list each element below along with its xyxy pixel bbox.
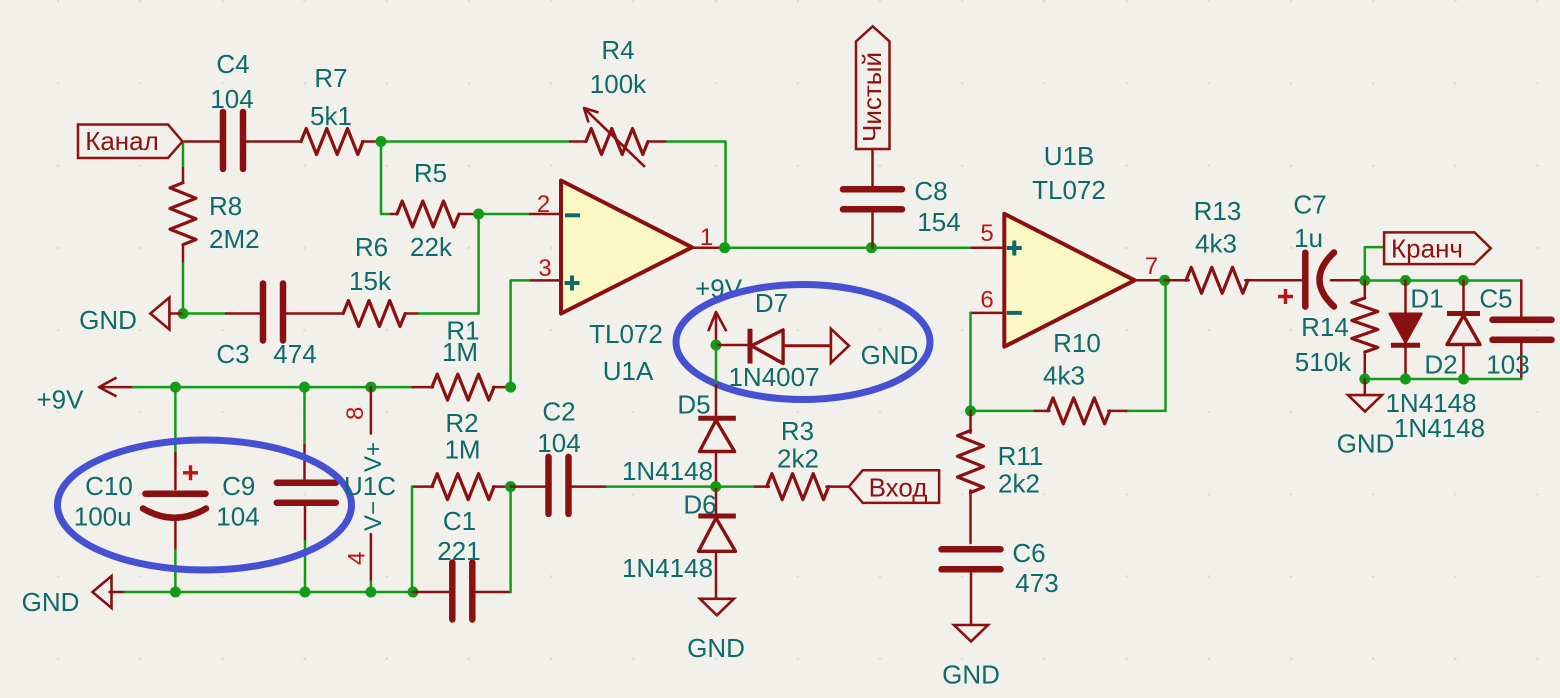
svg-text:V+: V+ (360, 442, 387, 472)
svg-text:R5: R5 (414, 158, 447, 188)
ground GND below R14 (1337, 379, 1395, 459)
svg-text:C2: C2 (542, 397, 575, 427)
svg-text:R2: R2 (445, 408, 478, 438)
svg-text:15k: 15k (349, 266, 392, 296)
resistor R1 1M (413, 316, 511, 401)
resistor R14 510k (1295, 281, 1378, 380)
svg-text:C4: C4 (216, 49, 249, 79)
capacitor C3 474 (216, 284, 316, 370)
svg-text:GND: GND (942, 660, 1000, 690)
svg-text:104: 104 (537, 428, 580, 458)
svg-text:Вход: Вход (869, 473, 928, 503)
svg-text:1N4148: 1N4148 (1394, 413, 1485, 443)
junction at C8 (866, 242, 877, 253)
ground GND (right of D7, rotated) (831, 329, 918, 370)
svg-text:103: 103 (1486, 350, 1529, 380)
wire node A down to R5 (381, 142, 391, 215)
U1A output pin wire (692, 246, 725, 249)
capacitor C6 473 (942, 538, 1059, 624)
svg-text:R14: R14 (1301, 312, 1349, 342)
svg-text:2M2: 2M2 (209, 224, 260, 254)
resistor R8 2M2 (170, 168, 260, 263)
svg-text:474: 474 (273, 339, 316, 369)
hierarchical label Канал (78, 125, 183, 159)
junction C10 top (170, 382, 181, 393)
wire R6→R5 output node (419, 214, 479, 314)
svg-text:154: 154 (917, 207, 960, 237)
power flag +9V left rail (37, 378, 133, 415)
capacitor C5 103 (1479, 281, 1551, 380)
junction D2 bottom (1458, 374, 1469, 385)
svg-text:4k3: 4k3 (1043, 361, 1085, 391)
wire node→U1A pin 2 (479, 213, 561, 216)
junction D2 top (1458, 275, 1469, 286)
svg-text:R13: R13 (1194, 196, 1242, 226)
junction R14 bottom (1359, 374, 1370, 385)
wire crunch bottom rail (1365, 378, 1522, 381)
svg-text:Чистый: Чистый (857, 52, 887, 142)
svg-text:Канал: Канал (85, 126, 159, 156)
svg-text:221: 221 (437, 536, 480, 566)
resistor R11 2k2 (958, 411, 1044, 543)
wire GND rail (125, 591, 413, 594)
capacitor C4 (210, 49, 253, 169)
svg-text:1N4007: 1N4007 (728, 362, 819, 392)
svg-text:R11: R11 (998, 441, 1044, 471)
resistor R6 15k (283, 232, 419, 327)
junction bias node (R1/R2/pin3) (505, 382, 516, 393)
svg-text:6: 6 (980, 287, 993, 314)
diode D5 1N4148 (622, 385, 736, 487)
svg-text:2: 2 (537, 191, 550, 218)
svg-text:1N4148: 1N4148 (622, 553, 713, 583)
resistor R3 2k2 (716, 416, 849, 500)
svg-text:C3: C3 (216, 339, 249, 369)
capacitor C9 104 (216, 387, 335, 592)
svg-text:104: 104 (210, 84, 253, 114)
wire node A→R4 (381, 140, 570, 143)
svg-text:8: 8 (342, 407, 369, 420)
U1A pin 3 wire (511, 280, 561, 387)
junction at GND node (178, 308, 189, 319)
power flag +9V at D7 (695, 274, 743, 346)
svg-text:473: 473 (1015, 568, 1058, 598)
svg-text:1u: 1u (1294, 223, 1323, 253)
junction crunch node (1359, 275, 1370, 286)
svg-text:TL072: TL072 (1032, 175, 1106, 205)
svg-text:100k: 100k (590, 69, 647, 99)
wire net КАНАЛ→C4 (top input run) (183, 142, 224, 169)
U1B pin 6 wire (971, 313, 1005, 411)
resistor R5 22k (391, 158, 479, 262)
svg-text:D2: D2 (1424, 350, 1457, 380)
svg-text:U1A: U1A (603, 356, 654, 386)
svg-text:R7: R7 (314, 63, 347, 93)
svg-text:100u: 100u (74, 502, 132, 532)
capacitor C2 104 (511, 397, 716, 514)
svg-text:2k2: 2k2 (998, 469, 1040, 499)
capacitor C7 1u (polarized) (1278, 190, 1365, 307)
capacitor C1 221 (413, 487, 511, 620)
svg-text:+9V: +9V (37, 385, 85, 415)
highlight ellipse around D7 (676, 285, 930, 400)
svg-text:5k1: 5k1 (310, 101, 352, 131)
capacitor C10 100u (polarized) (74, 387, 206, 592)
resistor R2 1M (412, 408, 511, 592)
junction at D7/D5 node (711, 340, 722, 351)
diode D6 1N4148 (622, 487, 736, 599)
node A junction (376, 136, 387, 147)
diode D7 1N4007 (716, 288, 831, 392)
junction C1 left (408, 587, 419, 598)
wire R4→U1A output node (667, 142, 726, 248)
svg-text:V−: V− (360, 501, 387, 531)
svg-text:1M: 1M (442, 337, 478, 367)
hierarchical label Кранч (1384, 232, 1491, 264)
wire crunch top rail (1365, 279, 1522, 282)
svg-text:4k3: 4k3 (1195, 229, 1237, 259)
junction U1C V+ (365, 382, 376, 393)
junction C10 bottom (170, 587, 181, 598)
op-amp U1B TL072 (1004, 141, 1134, 347)
resistor R10 4k3 (feedback) (971, 280, 1166, 424)
junction R5/pin2 node (473, 209, 484, 220)
wire C4→R7 (243, 140, 301, 143)
wire +9V rail (133, 386, 413, 389)
svg-text:R10: R10 (1053, 328, 1101, 358)
svg-text:C5: C5 (1479, 284, 1512, 314)
highlight ellipse around C9/C10 (58, 440, 352, 570)
wire to label Кранч (1365, 247, 1384, 280)
svg-text:C6: C6 (1012, 538, 1045, 568)
ground GND bottom-left rail (22, 576, 125, 617)
junction R2/C2 node (505, 481, 516, 492)
diode D1 1N4148 (filled, cathode down) (1390, 281, 1444, 380)
svg-text:D7: D7 (755, 288, 788, 318)
diode D2 1N4148 (cathode up) (1424, 281, 1480, 380)
junction U1C V- bottom (365, 587, 376, 598)
wire R8→GND node (182, 263, 185, 314)
svg-text:R4: R4 (601, 35, 634, 65)
junction D1 top (1400, 275, 1411, 286)
svg-text:C8: C8 (914, 176, 947, 206)
capacitor C8 154 (843, 149, 961, 248)
svg-text:104: 104 (216, 502, 259, 532)
svg-text:1N4148: 1N4148 (622, 456, 713, 486)
svg-text:GND: GND (79, 305, 137, 335)
junction U1B output (1159, 275, 1170, 286)
ground GND below D6 (687, 599, 745, 663)
svg-text:U1B: U1B (1044, 141, 1095, 171)
svg-text:4: 4 (344, 552, 371, 565)
wire output→C8 node (725, 246, 872, 249)
svg-text:510k: 510k (1295, 347, 1352, 377)
svg-text:R6: R6 (355, 232, 388, 262)
junction C9 top (299, 382, 310, 393)
svg-text:TL072: TL072 (589, 319, 663, 349)
svg-text:U1C: U1C (344, 471, 396, 501)
hierarchical label Чистый (856, 26, 890, 149)
svg-text:D1: D1 (1410, 284, 1443, 314)
svg-text:1M: 1M (444, 435, 480, 465)
svg-text:5: 5 (980, 220, 993, 247)
potentiometer R4 100k (570, 35, 667, 167)
U1B output pin wire (1135, 279, 1165, 282)
junction D1 bottom (1400, 374, 1411, 385)
svg-text:22k: 22k (410, 232, 453, 262)
svg-text:C1: C1 (443, 506, 476, 536)
svg-text:GND: GND (861, 340, 919, 370)
svg-text:D5: D5 (677, 390, 710, 420)
svg-text:Кранч: Кранч (1391, 234, 1463, 264)
svg-text:3: 3 (538, 255, 551, 282)
svg-text:2k2: 2k2 (777, 444, 819, 474)
svg-text:GND: GND (1337, 429, 1395, 459)
resistor R7 5k1 (301, 63, 363, 155)
svg-text:C10: C10 (85, 471, 133, 501)
svg-text:C9: C9 (222, 471, 255, 501)
svg-text:D6: D6 (683, 490, 716, 520)
wire +9V node→D5 (715, 345, 718, 385)
wire R7→node A (362, 140, 381, 143)
hierarchical label Вход (849, 470, 939, 503)
junction R10/R11 node (965, 405, 976, 416)
svg-text:GND: GND (687, 633, 745, 663)
ground GND1 (left of R8) (79, 298, 183, 336)
svg-text:GND: GND (22, 587, 80, 617)
junction C9 bottom (300, 587, 311, 598)
junction input clamp node (710, 481, 721, 492)
output node junction (719, 242, 730, 253)
wire GND node→C3 (183, 312, 226, 315)
svg-text:C7: C7 (1293, 190, 1326, 220)
svg-text:7: 7 (1145, 253, 1158, 280)
wire C8 node→U1B pin 5 (872, 246, 1005, 249)
ground GND below C6 (942, 625, 1000, 690)
resistor R13 4k3 (1165, 196, 1306, 293)
op-amp U1A TL072 (561, 181, 692, 387)
svg-text:R3: R3 (781, 416, 814, 446)
svg-text:R8: R8 (209, 191, 242, 221)
op-amp power unit U1C (V+ pin 8, V- pin 4) (342, 387, 396, 592)
